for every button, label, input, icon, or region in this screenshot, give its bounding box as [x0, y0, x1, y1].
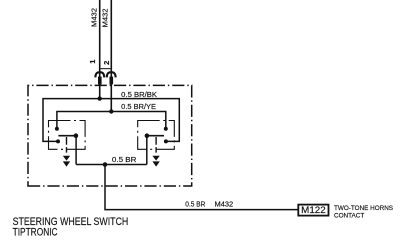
junction dot wire1 x rail BR/BK	[98, 96, 102, 100]
wire ground tap down and out of box	[105, 165, 298, 210]
svg-text:M432: M432	[89, 8, 98, 27]
connector housing line under pin 2	[100, 68, 111, 70]
connector male pin 1 (filled)	[98, 77, 102, 85]
svg-text:0.5 BR: 0.5 BR	[112, 157, 136, 164]
svg-text:2: 2	[102, 61, 111, 65]
junction dot wire2 x rail BR/YE	[109, 109, 113, 113]
junction dot ground rail tap	[103, 162, 108, 167]
right switch common junction dot	[145, 133, 150, 138]
left switch fixed contact (BR/YE)	[55, 127, 59, 131]
svg-text:0.5 BR: 0.5 BR	[185, 201, 205, 208]
ground rail 0.5 BR inside box	[76, 164, 147, 166]
left switch common junction dot	[74, 133, 79, 138]
left switch actuator arrows	[63, 156, 70, 161]
left switch actuator dashed line	[66, 137, 68, 153]
svg-text:0.5 BR/YE: 0.5 BR/YE	[121, 104, 156, 111]
inner dash-dot box left switch	[49, 121, 86, 150]
wire 2 M432 vertical from top	[110, 0, 112, 112]
right switch wire to ground rail	[146, 136, 148, 165]
right switch movable contact bar	[147, 135, 164, 137]
svg-text:1: 1	[88, 60, 97, 64]
svg-text:CONTACT: CONTACT	[334, 212, 364, 219]
connector socket arc pin 1	[95, 72, 104, 77]
right switch fixed contact (BR/BK)	[164, 139, 168, 143]
connector box M122	[298, 205, 328, 216]
inner dash-dot box right switch	[138, 121, 175, 150]
left switch wire to ground rail	[75, 136, 77, 165]
svg-text:TIPTRONIC: TIPTRONIC	[13, 227, 58, 239]
left switch fixed contact (BR/BK)	[56, 139, 60, 143]
left switch movable contact bar	[58, 135, 76, 137]
svg-text:M122: M122	[301, 205, 326, 215]
right switch actuator dashed line	[155, 137, 157, 153]
outer dash-dot component box (steering wheel switch)	[28, 85, 192, 186]
right switch actuator arrows	[152, 156, 159, 161]
connector socket arc pin 2	[107, 72, 116, 77]
right switch fixed contact (BR/YE)	[164, 127, 168, 131]
svg-text:M432: M432	[101, 9, 110, 28]
wire 0.5 BR/YE rail	[57, 112, 166, 129]
svg-text:TWO-TONE HORNS: TWO-TONE HORNS	[334, 205, 394, 212]
connector male pin 2 (filled)	[110, 77, 114, 85]
svg-text:M432: M432	[215, 201, 234, 208]
wire 1 M432 vertical from top	[99, 0, 101, 99]
wire 0.5 BR/BK rail (left vert, top horiz, right vert, stubs to contacts)	[43, 99, 179, 142]
svg-text:0.5 BR/BK: 0.5 BR/BK	[121, 92, 157, 99]
